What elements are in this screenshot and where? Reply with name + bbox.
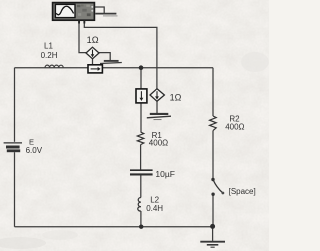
wire: right column switch to bottom bbox=[212, 195, 214, 227]
wire: L2 to bottom bus bbox=[140, 211, 142, 227]
switch J1 contact dots bbox=[211, 178, 214, 181]
junction node B (bottom middle) bbox=[139, 225, 143, 229]
wire: diamond U2 bottom to ground stub bbox=[156, 101, 158, 113]
scope body texture bbox=[77, 5, 80, 7]
svg-text:L1: L1 bbox=[44, 42, 53, 51]
svg-text:1Ω: 1Ω bbox=[170, 92, 182, 102]
wire: right column from corner down to R2 bbox=[212, 68, 214, 116]
resistor R2 zigzag bbox=[210, 116, 217, 131]
ground (below diamond U2) bbox=[147, 114, 171, 120]
CCVS U1 source diamond 1Ω bbox=[86, 47, 99, 59]
svg-text:10µF: 10µF bbox=[155, 169, 175, 179]
oscilloscope icon bbox=[53, 3, 95, 24]
scope screen sine trace bbox=[56, 6, 73, 15]
capacitor C1 plates bbox=[130, 170, 153, 174]
inductor L1 coil bbox=[45, 65, 63, 68]
wire: middle column node to box2 bbox=[140, 68, 142, 89]
resistor R1 zigzag bbox=[137, 132, 143, 145]
CCVS U2 sense box (arrow down) bbox=[136, 89, 147, 103]
junction node A (top middle) bbox=[139, 65, 144, 70]
CCVS U2 source diamond 1Ω bbox=[150, 89, 164, 102]
wire: bottom horizontal bus bbox=[15, 226, 213, 228]
wire: R1 to capacitor bbox=[140, 145, 142, 170]
wire: top main horizontal bus bbox=[15, 67, 214, 69]
wire: diamond U1 bottom to box1 bbox=[92, 59, 94, 65]
wire: left column top (battery to top wire corner) bbox=[14, 68, 16, 142]
ground (at diamond U1) bbox=[100, 61, 122, 64]
inductor L2 coil bbox=[138, 198, 141, 212]
wire: scope left probe down then right to diamond U1 bbox=[79, 21, 86, 53]
wire: scope right probe down, right, down to diamond U2 bbox=[84, 21, 157, 89]
wire: right column R2 to switch bbox=[212, 131, 214, 179]
svg-text:400Ω: 400Ω bbox=[149, 139, 168, 148]
CCVS U1 sense box (arrow right) bbox=[88, 65, 102, 73]
ground (bottom right) bbox=[200, 242, 225, 248]
svg-text:1Ω: 1Ω bbox=[87, 35, 99, 45]
scan smudges bbox=[0, 52, 269, 249]
wire: box2 to R1 bbox=[140, 103, 142, 132]
ground (scope lead) bbox=[95, 14, 117, 16]
svg-text:400Ω: 400Ω bbox=[225, 123, 244, 132]
scope bottom terminals bbox=[78, 20, 80, 23]
wire: diamond U1 right vertex to ground stub bbox=[99, 53, 110, 61]
wire: capacitor to L2 bbox=[140, 175, 142, 198]
svg-text:0.4H: 0.4H bbox=[146, 204, 163, 213]
wire: scope ground lead bbox=[95, 7, 104, 13]
junction node C (bottom right) bbox=[210, 224, 215, 229]
switch J1 blade bbox=[213, 180, 222, 193]
wire: bottom-right node to ground stub bbox=[212, 227, 214, 241]
battery E bbox=[4, 143, 22, 151]
svg-text:[Space]: [Space] bbox=[229, 187, 256, 196]
wire: left column battery to bottom bbox=[14, 152, 16, 227]
svg-text:6.0V: 6.0V bbox=[26, 146, 43, 155]
svg-text:0.2H: 0.2H bbox=[41, 51, 58, 60]
